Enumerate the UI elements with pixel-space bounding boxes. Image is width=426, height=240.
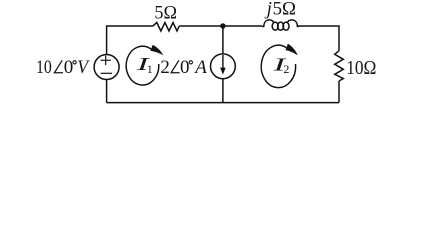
svg-text:10Ω: 10Ω	[346, 57, 376, 79]
inductor L1 j5Ω coil	[262, 20, 274, 27]
svg-text:2: 2	[283, 62, 289, 76]
current source circle	[211, 54, 236, 79]
svg-text:2: 2	[160, 57, 170, 78]
label 10∠0°V value of voltage source	[36, 57, 90, 78]
svg-text:A: A	[193, 57, 207, 78]
svg-text:10: 10	[36, 57, 52, 78]
svg-text:5Ω: 5Ω	[273, 0, 296, 20]
wire middle branch top	[222, 26, 224, 54]
svg-text:1: 1	[147, 62, 153, 76]
svg-text:0: 0	[64, 57, 73, 78]
degree circle of 2∠0°A	[189, 61, 192, 64]
svg-text:0: 0	[180, 57, 190, 78]
voltage source plus sign	[101, 56, 111, 66]
mesh current I1 loop arrow	[126, 45, 163, 85]
wire middle branch bottom	[222, 79, 224, 102]
voltage source circle	[94, 55, 119, 80]
resistor R2 10Ω zigzag	[335, 51, 344, 81]
degree circle of 10∠0°V	[73, 61, 76, 64]
label I2 mesh current name	[272, 54, 290, 76]
wire left-bottom segment	[106, 80, 108, 103]
label j5Ω value of inductor L1	[264, 0, 296, 20]
wire top-right segment	[297, 26, 339, 51]
wire top-left segment	[107, 26, 153, 54]
angle symbol of 2∠0°A	[171, 60, 180, 73]
current source arrow	[220, 55, 226, 75]
svg-text:5Ω: 5Ω	[154, 3, 177, 24]
angle symbol of 10∠0°V	[54, 60, 63, 73]
wire top-middle segment	[179, 25, 262, 27]
voltage source minus sign	[101, 72, 112, 74]
label 2∠0°A value of current source	[160, 57, 207, 78]
wire right-bottom segment	[338, 81, 340, 103]
resistor R1 5Ω zigzag	[153, 23, 179, 32]
mesh current I2 loop arrow	[261, 44, 298, 88]
wire bottom segment	[107, 102, 339, 104]
junction node dot	[220, 23, 225, 28]
label I1 mesh current name	[135, 54, 153, 76]
